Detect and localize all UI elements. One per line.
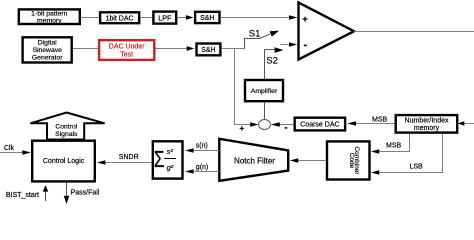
- wire LPF to S&H with arrowhead: [177, 15, 193, 20]
- wire pattern memory to 1bit DAC: [81, 17, 100, 19]
- box Coarse DAC: [295, 118, 345, 131]
- box Amplifier: [245, 80, 283, 101]
- wire branch down to summer + input with arrowhead: [235, 49, 259, 127]
- svg-text:LSB: LSB: [410, 164, 424, 171]
- box DAC Under Test (red): [99, 40, 154, 60]
- box sigma s^2/g^2: [153, 141, 183, 178]
- switch S1 arm with arrowhead: [245, 31, 280, 49]
- wire LSB from memory down to code combiner with arrowhead: [371, 134, 443, 175]
- svg-text:Control: Control: [55, 124, 77, 131]
- wire s(n) notch filter to sigma box with arrowhead: [185, 148, 219, 153]
- svg-text:MSB: MSB: [386, 143, 402, 150]
- wire MSB from memory down to code combiner with arrowhead: [371, 134, 410, 154]
- svg-text:Combiner: Combiner: [353, 146, 360, 175]
- label Control Signals: [55, 124, 78, 138]
- box Number/Index memory: [396, 115, 458, 133]
- wire amplifier to summer: [264, 102, 266, 120]
- wire BIST_start up into control logic with arrowhead: [43, 185, 49, 201]
- svg-text:S&H: S&H: [200, 15, 214, 22]
- svg-text:Amplifier: Amplifier: [251, 88, 278, 95]
- wire generator to DAC under test: [73, 48, 98, 50]
- wire 1bit DAC to LPF: [140, 17, 152, 19]
- svg-text:Pass/Fail: Pass/Fail: [71, 189, 100, 196]
- svg-text:Coarse DAC: Coarse DAC: [300, 122, 339, 129]
- wire SNDR sigma box to control logic with arrowhead: [97, 160, 152, 165]
- svg-text:+: +: [302, 14, 308, 25]
- op-amp comparator triangle: [299, 3, 355, 60]
- wire Clk into control logic with arrowhead: [0, 150, 31, 155]
- svg-text:memory: memory: [414, 125, 440, 132]
- svg-text:s²: s²: [167, 147, 174, 156]
- switch contact stub into comparator - input with arrowhead: [281, 42, 298, 47]
- box Digital Sinewave Generator: [23, 37, 72, 62]
- svg-text:g²: g²: [167, 163, 174, 172]
- svg-text:+: +: [240, 124, 245, 133]
- svg-text:BIST_start: BIST_start: [6, 192, 39, 199]
- svg-text:S1: S1: [249, 29, 261, 40]
- svg-text:DAC Under: DAC Under: [109, 43, 145, 50]
- svg-text:MSB: MSB: [372, 117, 388, 124]
- svg-text:-: -: [304, 39, 308, 51]
- box S&H (bottom): [197, 44, 221, 56]
- wire from right edge into number/index memory with arrowhead: [458, 121, 474, 126]
- svg-text:Test: Test: [120, 51, 133, 58]
- svg-text:Sinewave: Sinewave: [32, 47, 62, 54]
- box 1-bit pattern memory: [19, 9, 80, 24]
- svg-text:Notch Filter: Notch Filter: [234, 156, 275, 165]
- box 1bit DAC: [100, 12, 139, 23]
- svg-text:Digital: Digital: [38, 40, 57, 47]
- svg-text:SNDR: SNDR: [119, 154, 139, 161]
- svg-text:Number/Index: Number/Index: [405, 118, 449, 125]
- svg-text:Generator: Generator: [32, 55, 63, 62]
- wire S2 down to amplifier: [264, 50, 266, 80]
- notch filter trapezoid: [219, 139, 288, 181]
- wire Pass/Fail down from control logic with arrowhead: [64, 183, 70, 205]
- svg-text:Signals: Signals: [55, 131, 78, 138]
- control signals block arrow: [30, 113, 104, 140]
- box S&H (top): [195, 12, 219, 23]
- summing junction circle: [259, 120, 271, 130]
- svg-text:1bit DAC: 1bit DAC: [106, 15, 134, 22]
- wire number/index memory to coarse DAC with arrowhead: [347, 121, 394, 126]
- svg-text:S&H: S&H: [201, 47, 215, 54]
- svg-text:g(n): g(n): [196, 164, 208, 171]
- svg-text:LPF: LPF: [158, 13, 172, 22]
- wire S&H output: [222, 48, 246, 50]
- svg-text:Σ: Σ: [154, 146, 165, 172]
- wire comparator output to right edge: [354, 31, 474, 33]
- svg-text:Control Logic: Control Logic: [43, 158, 85, 165]
- box LPF: [153, 12, 176, 24]
- wire coarse DAC to summer with arrowhead: [271, 122, 294, 127]
- svg-text:S2: S2: [266, 56, 278, 67]
- wire S&H to comparator + input with arrowhead: [221, 15, 298, 20]
- wire DAC under test to S&H with arrowhead: [155, 46, 194, 51]
- box Code Combiner (vertical text): [327, 141, 370, 179]
- svg-text:Clk: Clk: [4, 145, 15, 152]
- svg-text:memory: memory: [37, 18, 62, 25]
- switch S2 arm with arrowhead: [265, 47, 284, 53]
- wire code combiner to notch filter with arrowhead: [290, 158, 326, 163]
- wire g(n) notch filter to sigma box with arrowhead: [185, 169, 219, 174]
- svg-text:s(n): s(n): [196, 143, 208, 150]
- box Control Logic: [32, 141, 95, 182]
